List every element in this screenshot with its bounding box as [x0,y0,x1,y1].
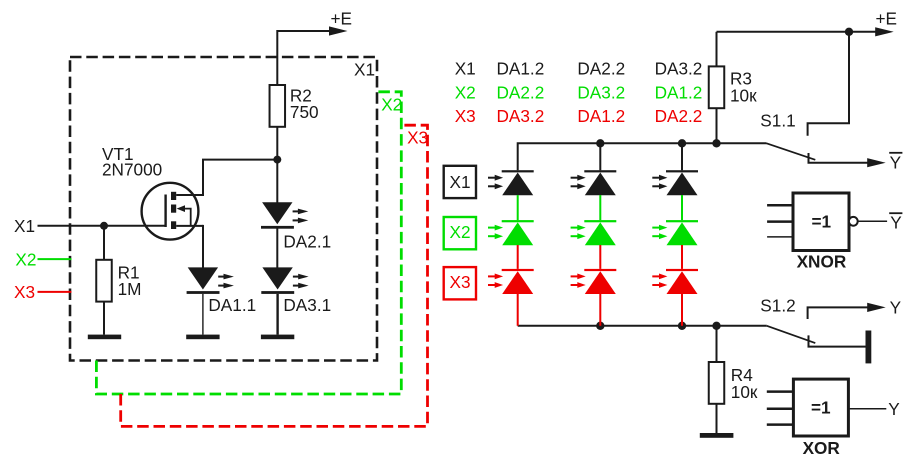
svg-text:DA2.2: DA2.2 [497,83,545,103]
svg-text:DA3.1: DA3.1 [283,295,331,315]
svg-text:X2: X2 [381,95,402,115]
svg-text:X1: X1 [354,60,375,80]
svg-text:DA3.2: DA3.2 [655,59,703,79]
svg-text:750: 750 [290,102,319,122]
svg-text:DA3.2: DA3.2 [577,83,625,103]
svg-text:X1: X1 [14,216,35,236]
svg-text:DA1.2: DA1.2 [577,106,625,126]
svg-text:DA3.2: DA3.2 [497,106,545,126]
svg-text:S1.2: S1.2 [760,296,795,316]
svg-text:10к: 10к [731,382,758,402]
svg-text:X3: X3 [455,106,476,126]
svg-text:=1: =1 [812,212,832,232]
svg-text:S1.1: S1.1 [760,111,795,131]
svg-text:DA1.2: DA1.2 [497,59,545,79]
svg-text:Y: Y [890,213,902,233]
svg-text:Y: Y [890,153,902,173]
svg-text:XNOR: XNOR [797,252,847,272]
svg-text:Y: Y [888,399,900,419]
svg-text:+E: +E [331,9,353,29]
svg-text:DA2.2: DA2.2 [577,59,625,79]
svg-text:X1: X1 [449,172,470,192]
svg-text:1M: 1M [118,279,142,299]
svg-text:X3: X3 [449,272,470,292]
svg-text:Y: Y [890,298,902,318]
svg-text:+E: +E [876,9,898,29]
svg-text:X2: X2 [15,250,36,270]
svg-text:X3: X3 [407,128,428,148]
svg-text:DA2.2: DA2.2 [655,106,703,126]
svg-text:XOR: XOR [803,438,841,458]
svg-text:10к: 10к [730,86,757,106]
svg-text:X1: X1 [455,59,476,79]
svg-text:DA1.2: DA1.2 [655,83,703,103]
svg-text:=1: =1 [811,398,831,418]
svg-text:X2: X2 [455,83,476,103]
svg-text:X3: X3 [14,282,35,302]
svg-text:2N7000: 2N7000 [102,160,162,180]
svg-text:DA2.1: DA2.1 [283,232,331,252]
svg-text:X2: X2 [449,222,470,242]
svg-text:DA1.1: DA1.1 [208,295,256,315]
